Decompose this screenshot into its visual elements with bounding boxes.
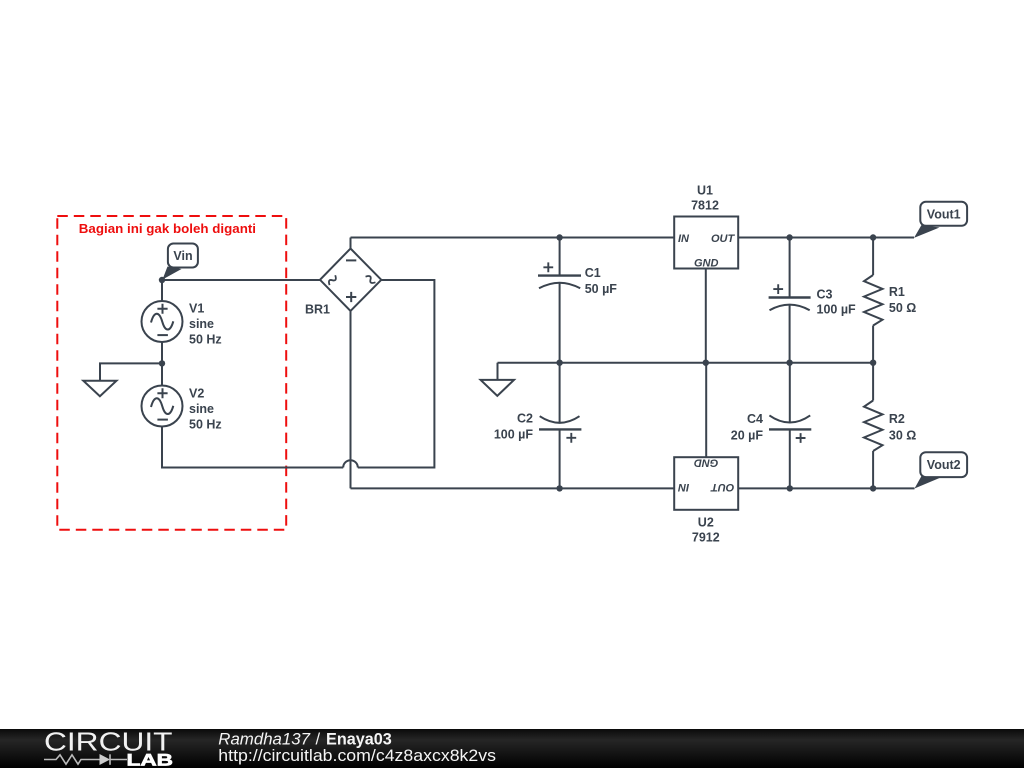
footer url line bbox=[218, 747, 496, 765]
voltage source V2 bbox=[142, 386, 183, 427]
svg-text:C4: C4 bbox=[747, 412, 763, 426]
svg-text:7912: 7912 bbox=[692, 531, 720, 545]
svg-text:50 Hz: 50 Hz bbox=[189, 418, 222, 432]
CircuitLab logo resistor-diode art bbox=[44, 754, 127, 765]
CircuitLab logo LAB bbox=[127, 751, 174, 768]
voltage source V1 bbox=[142, 301, 183, 342]
svg-text:50 Hz: 50 Hz bbox=[189, 333, 222, 347]
resistor R2 bbox=[864, 363, 883, 489]
svg-text:50 µF: 50 µF bbox=[585, 282, 618, 296]
node Vout2 flag bbox=[915, 452, 968, 488]
svg-text:20 µF: 20 µF bbox=[731, 429, 764, 443]
wire Vin to BR1 left bbox=[162, 279, 320, 281]
svg-text:50 Ω: 50 Ω bbox=[889, 301, 916, 315]
wire V2 bottom loop to BR1 right vertex (with hop) bbox=[162, 280, 434, 468]
C4 value label bbox=[731, 412, 764, 443]
svg-text:sine: sine bbox=[189, 317, 214, 331]
U1 label bbox=[691, 184, 719, 213]
capacitor C4 bbox=[769, 363, 811, 489]
svg-text:U1: U1 bbox=[697, 184, 713, 198]
footer bar bbox=[0, 729, 1024, 768]
ground (mid rail) bbox=[481, 363, 514, 396]
R2 value label bbox=[889, 412, 916, 443]
capacitor C1 bbox=[538, 238, 581, 363]
node Vin flag bbox=[163, 244, 198, 280]
wire bottom rail right segment bbox=[738, 487, 914, 489]
svg-text:IN: IN bbox=[678, 233, 690, 245]
svg-text:OUT: OUT bbox=[710, 481, 735, 493]
annotation text bbox=[79, 221, 256, 236]
footer author line bbox=[218, 731, 391, 749]
svg-text:30 Ω: 30 Ω bbox=[889, 429, 916, 443]
svg-text:U2: U2 bbox=[698, 516, 714, 530]
svg-text:C2: C2 bbox=[517, 412, 533, 426]
svg-text:Vin: Vin bbox=[173, 249, 192, 263]
svg-text:GND: GND bbox=[694, 258, 719, 270]
wire BR1 top vertex to top rail bbox=[350, 238, 352, 249]
capacitor C3 bbox=[769, 238, 811, 363]
C2 value label bbox=[494, 412, 534, 442]
regulator U2 bbox=[674, 456, 738, 510]
capacitor C2 bbox=[539, 363, 581, 489]
svg-text:100 µF: 100 µF bbox=[494, 427, 534, 441]
wire U1 GND pin bbox=[705, 269, 707, 363]
BR1 label bbox=[305, 303, 330, 317]
svg-text:V2: V2 bbox=[189, 387, 204, 401]
svg-text:OUT: OUT bbox=[711, 233, 736, 245]
wire top rail right segment bbox=[738, 237, 914, 239]
svg-text:IN: IN bbox=[677, 481, 689, 493]
wire BR1 bottom vertex down bbox=[350, 311, 352, 488]
C3 value label bbox=[817, 288, 857, 317]
svg-text:sine: sine bbox=[189, 402, 214, 416]
V1 value label bbox=[189, 302, 222, 347]
wire middle ground rail bbox=[498, 362, 874, 364]
svg-text:http://circuitlab.com/c4z8axcx: http://circuitlab.com/c4z8axcx8k2vs bbox=[218, 747, 496, 765]
V2 value label bbox=[189, 387, 222, 432]
regulator U1 bbox=[674, 217, 738, 270]
svg-text:BR1: BR1 bbox=[305, 303, 330, 317]
U2 label bbox=[692, 516, 720, 545]
svg-text:LAB: LAB bbox=[127, 751, 174, 768]
svg-text:Vout1: Vout1 bbox=[927, 207, 961, 221]
svg-text:7812: 7812 bbox=[691, 199, 719, 213]
svg-text:C3: C3 bbox=[817, 288, 833, 302]
wire top rail left segment bbox=[351, 237, 675, 239]
wire bottom rail left segment bbox=[351, 487, 675, 489]
wire Vin to V1 top bbox=[161, 280, 163, 301]
svg-text:R2: R2 bbox=[889, 412, 905, 426]
ground (sources) bbox=[83, 363, 162, 396]
red annotation box bbox=[57, 216, 286, 530]
svg-text:Vout2: Vout2 bbox=[927, 458, 961, 472]
bridge rectifier BR1 bbox=[320, 249, 381, 312]
svg-text:Bagian ini gak boleh diganti: Bagian ini gak boleh diganti bbox=[79, 221, 256, 236]
R1 value label bbox=[889, 285, 916, 315]
wire V1 bottom to V2 top bbox=[161, 342, 163, 386]
CircuitLab logo CIRCUIT bbox=[44, 729, 173, 757]
resistor R1 bbox=[864, 238, 883, 363]
junction dots bbox=[159, 234, 877, 491]
node Vout1 flag bbox=[914, 202, 967, 238]
svg-text:V1: V1 bbox=[189, 302, 204, 316]
svg-text:100 µF: 100 µF bbox=[817, 303, 857, 317]
svg-text:GND: GND bbox=[694, 456, 719, 468]
svg-text:R1: R1 bbox=[889, 285, 905, 299]
wire U2 GND pin bbox=[705, 363, 707, 458]
C1 value label bbox=[585, 266, 618, 296]
svg-text:C1: C1 bbox=[585, 266, 601, 280]
